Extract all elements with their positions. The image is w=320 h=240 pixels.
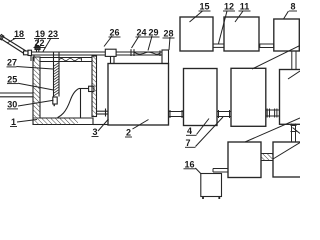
svg-text:28: 28 <box>163 29 173 39</box>
svg-text:18: 18 <box>14 29 24 39</box>
svg-text:23: 23 <box>48 29 58 39</box>
svg-text:11: 11 <box>240 2 250 12</box>
svg-text:27: 27 <box>7 58 17 68</box>
svg-text:22: 22 <box>34 38 44 48</box>
svg-text:29: 29 <box>148 28 158 38</box>
svg-text:26: 26 <box>109 28 119 38</box>
svg-text:8: 8 <box>290 2 295 12</box>
svg-text:30: 30 <box>7 100 17 110</box>
svg-text:16: 16 <box>184 160 194 170</box>
svg-text:12: 12 <box>224 2 234 12</box>
svg-text:2: 2 <box>126 128 131 138</box>
svg-text:1: 1 <box>11 117 16 127</box>
svg-text:24: 24 <box>136 28 146 38</box>
svg-text:15: 15 <box>199 2 209 12</box>
svg-text:25: 25 <box>7 74 17 84</box>
svg-text:7: 7 <box>185 138 190 148</box>
svg-text:4: 4 <box>187 126 192 136</box>
svg-text:3: 3 <box>92 127 97 137</box>
